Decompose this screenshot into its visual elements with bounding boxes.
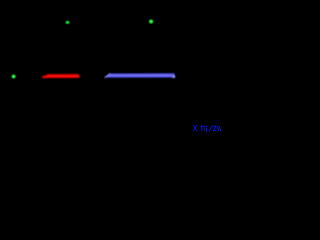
green LED dot top-right bbox=[148, 18, 155, 24]
red light bar bbox=[42, 74, 80, 79]
green LED dot top-left bbox=[64, 20, 70, 25]
watermark signature (blue) bottom-right bbox=[193, 125, 220, 131]
green LED dot left bbox=[11, 73, 17, 79]
blue light bar bbox=[104, 73, 175, 78]
